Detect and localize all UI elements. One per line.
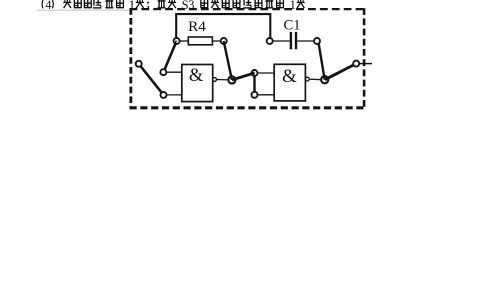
wire: C1 left stub [270, 40, 290, 42]
wire: output line through border [356, 63, 372, 65]
terminal circle: C1 right [314, 38, 320, 44]
svg-text:C1: C1 [283, 17, 300, 33]
wire tick into R4 left ring [175, 41, 176, 44]
wire: gate1 upper input [163, 71, 181, 73]
terminal circle: gate2 tie upper [252, 70, 258, 76]
nand gate U1 [182, 65, 217, 102]
terminal circle: gate1 upper input [160, 69, 166, 75]
wire: gate2 output to junction B [309, 78, 321, 81]
terminal circle: gate1 lower input [161, 92, 167, 98]
terminal circle: output [353, 61, 359, 67]
nand gate U2 [274, 64, 309, 101]
switch arm: left switch S3 [139, 64, 164, 95]
wire: C1 right terminal down to junction B [319, 43, 325, 79]
wire: gate2 upper input [255, 72, 275, 74]
switch arm segment at junction B [325, 72, 341, 80]
wire: C1 right stub [297, 40, 317, 42]
terminal circle: R4 right [221, 38, 227, 44]
wire tick into tie upper ring [252, 72, 255, 75]
capacitor C1 plates [290, 32, 292, 49]
junction node B [321, 76, 328, 83]
resistor R4 body [188, 37, 212, 45]
svg-text:&: & [189, 66, 204, 86]
junction node A [228, 76, 235, 83]
terminal circle: gate2 tie lower [252, 92, 258, 98]
wire: R4 right terminal down to junction A [224, 41, 232, 80]
wire: gate1 lower input [164, 94, 182, 96]
switch arm: junction B to output terminal [325, 64, 357, 80]
wire: top feedback wire [176, 14, 270, 38]
wire: tie between gate2 inputs [253, 73, 255, 95]
switch arm: junction A to gate2 tie upper [232, 73, 255, 80]
svg-text:&: & [282, 66, 297, 87]
switch arm: R4 left terminal to gate1 upper input [163, 41, 176, 72]
wire: gate1 output to junction A [217, 79, 229, 81]
wire: gate2 lower input [255, 94, 275, 96]
wire: R4 left stub [177, 40, 189, 42]
svg-text:R4: R4 [188, 18, 206, 35]
dashed enclosure border [130, 8, 366, 108]
wire: R4 right stub [212, 40, 223, 42]
terminal circle: C1 left [267, 38, 273, 44]
caption (cut-off scan of: （4）实现振荡功能1分；开关S3 输入信号连接正确1分) [37, 0, 305, 12]
terminal circle: R4 left [174, 38, 180, 44]
terminal circle: switch S3 pole [136, 61, 142, 67]
